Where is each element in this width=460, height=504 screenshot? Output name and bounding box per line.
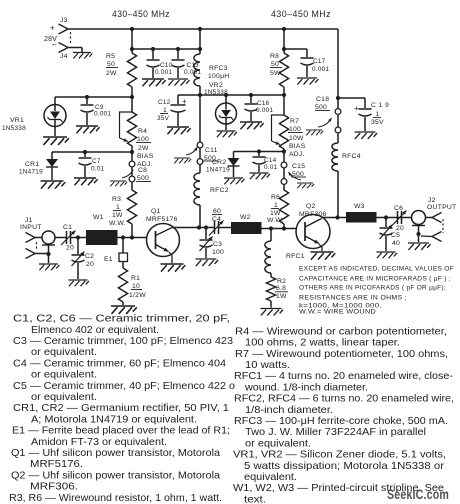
svg-text:20: 20 (86, 261, 94, 268)
svg-text:Q2 — Uhf silicon power transis: Q2 — Uhf silicon power transistor, Motor… (11, 470, 220, 481)
svg-text:0.001: 0.001 (155, 69, 172, 76)
svg-text:RFC2, RFC4 — 6 turns no. 20 en: RFC2, RFC4 — 6 turns no. 20 enameled wir… (234, 394, 454, 405)
svg-text:20: 20 (66, 245, 74, 252)
svg-text:Q1 — Uhf silicon power transis: Q1 — Uhf silicon power transistor, Motor… (11, 448, 220, 459)
svg-text:MRF5176: MRF5176 (146, 216, 178, 223)
svg-text:text.: text. (244, 494, 266, 504)
svg-text:C16: C16 (257, 100, 270, 107)
svg-text:+: + (50, 24, 55, 33)
svg-text:VR2: VR2 (209, 82, 223, 89)
svg-text:C 1 9: C 1 9 (371, 102, 389, 109)
svg-text:CR2: CR2 (212, 159, 226, 166)
svg-text:Elmenco 402 or equivalent.: Elmenco 402 or equivalent. (31, 325, 159, 336)
svg-text:1W: 1W (112, 212, 123, 219)
svg-text:2W: 2W (106, 70, 117, 77)
svg-text:C18: C18 (316, 96, 329, 103)
svg-text:0.001: 0.001 (94, 111, 111, 118)
svg-text:RFC3: RFC3 (209, 65, 228, 72)
svg-text:VR1, VR2 — Silicon Zener diode: VR1, VR2 — Silicon Zener diode, 5.1 volt… (233, 450, 446, 461)
svg-text:1N5338: 1N5338 (2, 125, 26, 132)
svg-text:–: – (52, 40, 57, 49)
svg-text:VR1: VR1 (10, 117, 24, 124)
svg-text:MRF306: MRF306 (299, 211, 327, 218)
svg-text:C4 — Ceramic trimmer, 60 pF; E: C4 — Ceramic trimmer, 60 pF; Elmenco 404 (13, 358, 226, 369)
svg-text:INPUT: INPUT (20, 224, 42, 231)
svg-text:50: 50 (271, 61, 279, 68)
svg-text:J4: J4 (60, 53, 68, 60)
svg-text:C17: C17 (313, 58, 326, 65)
svg-text:OUTPUT: OUTPUT (427, 204, 456, 211)
svg-text:C13: C13 (187, 62, 200, 69)
svg-text:or equivalent.: or equivalent. (31, 370, 97, 381)
svg-text:100: 100 (137, 136, 149, 143)
svg-text:R3: R3 (112, 196, 121, 203)
svg-text:C7: C7 (92, 158, 101, 165)
svg-text:R1: R1 (131, 275, 140, 282)
svg-text:C6: C6 (394, 205, 403, 212)
svg-text:60: 60 (213, 208, 221, 215)
svg-text:+: + (354, 104, 359, 113)
svg-text:50: 50 (107, 61, 115, 68)
svg-text:MRF5176.: MRF5176. (30, 459, 83, 470)
svg-text:R8: R8 (270, 53, 279, 60)
svg-text:40: 40 (392, 240, 400, 247)
svg-text:C3: C3 (213, 241, 222, 248)
svg-text:EXCEPT AS INDICATED, DECIMAL V: EXCEPT AS INDICATED, DECIMAL VALUES OF (299, 266, 454, 273)
svg-text:MRF306.: MRF306. (30, 482, 78, 493)
svg-text:E1 — Ferrite bead placed over: E1 — Ferrite bead placed over the lead o… (12, 426, 230, 437)
svg-text:1W: 1W (270, 210, 281, 217)
svg-text:C2: C2 (85, 253, 94, 260)
svg-text:W3: W3 (354, 203, 365, 210)
svg-text:R4: R4 (138, 128, 147, 135)
svg-text:Q1: Q1 (151, 208, 161, 215)
svg-text:W1: W1 (93, 214, 104, 221)
svg-text:100μH: 100μH (208, 73, 229, 80)
svg-text:R7 — Wirewound potentiometer,: R7 — Wirewound potentiometer, 100 ohms, (235, 349, 448, 360)
svg-text:C12: C12 (158, 99, 171, 106)
svg-text:RFC4: RFC4 (342, 153, 361, 160)
svg-text:C15: C15 (292, 163, 305, 170)
svg-text:2W: 2W (138, 145, 149, 152)
svg-text:J3: J3 (60, 17, 68, 24)
svg-text:100: 100 (289, 126, 301, 133)
svg-text:C10: C10 (160, 62, 173, 69)
svg-text:RFC1: RFC1 (286, 253, 305, 260)
svg-text:C8: C8 (138, 167, 147, 174)
svg-text:C14: C14 (264, 157, 277, 164)
svg-text:E1: E1 (104, 256, 113, 263)
svg-text:RESISTANCES ARE IN OHMS ;: RESISTANCES ARE IN OHMS ; (299, 295, 407, 302)
svg-text:or equivalent.: or equivalent. (31, 392, 97, 403)
svg-text:or equivalent.: or equivalent. (31, 347, 97, 358)
svg-text:W.W.: W.W. (109, 220, 126, 227)
svg-text:0.001: 0.001 (184, 69, 201, 76)
svg-text:RFC1 — 4 turns no. 20 enameled: RFC1 — 4 turns no. 20 enameled wire, clo… (234, 371, 453, 382)
svg-text:10W: 10W (289, 135, 304, 142)
svg-text:1N4719: 1N4719 (19, 169, 43, 176)
svg-text:W.W.: W.W. (267, 217, 284, 224)
svg-text:100 ohms, 2 watts, linear tape: 100 ohms, 2 watts, linear taper. (245, 338, 400, 349)
svg-text:R2: R2 (277, 278, 286, 285)
svg-text:ADJ.: ADJ. (289, 151, 305, 158)
svg-text:35V: 35V (371, 119, 384, 126)
svg-text:1/2W: 1/2W (129, 292, 146, 299)
svg-text:C11: C11 (205, 147, 218, 154)
svg-text:A; Motorola 1N4719 or equivale: A; Motorola 1N4719 or equivalent. (31, 414, 197, 425)
svg-text:W2: W2 (240, 214, 251, 221)
svg-text:100: 100 (212, 249, 224, 256)
svg-text:C1, C2, C6 — Ceramic trimmer,: C1, C2, C6 — Ceramic trimmer, 20 pF, (13, 314, 230, 325)
svg-text:1: 1 (376, 111, 380, 118)
svg-text:R4 — Wirewound or carbon poten: R4 — Wirewound or carbon potentiometer, (235, 326, 447, 337)
svg-text:wound. 1/8-inch diameter.: wound. 1/8-inch diameter. (244, 382, 368, 393)
svg-text:0.01: 0.01 (91, 166, 105, 173)
svg-text:Amidon FT-73 or equivalent.: Amidon FT-73 or equivalent. (31, 437, 167, 448)
svg-text:430–450 MHz: 430–450 MHz (112, 9, 170, 19)
svg-text:430–450 MHz: 430–450 MHz (271, 9, 331, 19)
svg-text:0.01: 0.01 (264, 164, 278, 171)
svg-text:C3 — Ceramic trimmer, 100 pF;: C3 — Ceramic trimmer, 100 pF; Elmenco 42… (13, 336, 233, 347)
svg-text:W.W.= WIRE WOUND: W.W.= WIRE WOUND (299, 309, 376, 316)
svg-text:1N4719: 1N4719 (206, 167, 230, 174)
svg-text:1N5338: 1N5338 (204, 89, 228, 96)
svg-text:RFC3 — 100-μH ferrite-core cho: RFC3 — 100-μH ferrite-core choke, 500 mA… (234, 416, 448, 427)
svg-text:1: 1 (163, 107, 167, 114)
svg-text:500: 500 (292, 171, 304, 178)
svg-text:1/8-inch diameter.: 1/8-inch diameter. (245, 405, 333, 416)
svg-text:Q2: Q2 (306, 203, 316, 210)
svg-text:CR1, CR2 — Germanium rectifier: CR1, CR2 — Germanium rectifier, 50 PIV, … (13, 403, 229, 414)
svg-text:0.001: 0.001 (256, 107, 273, 114)
svg-text:R7: R7 (290, 118, 299, 125)
svg-text:500: 500 (315, 104, 327, 111)
svg-text:1W: 1W (276, 293, 287, 300)
svg-text:500: 500 (137, 175, 149, 182)
svg-text:5W: 5W (270, 70, 281, 77)
svg-text:C5: C5 (391, 232, 400, 239)
svg-text:or equivalent.: or equivalent. (245, 438, 311, 449)
svg-text:OTHERS ARE IN PICOFARADS ( pF: OTHERS ARE IN PICOFARADS ( pF OR μμF); (299, 285, 446, 292)
svg-text:10 watts.: 10 watts. (245, 360, 290, 371)
svg-text:R5: R5 (106, 53, 115, 60)
svg-text:CAPACITANCE ARE IN MICROFARADS: CAPACITANCE ARE IN MICROFARADS ( μF ) ; (299, 276, 451, 283)
svg-text:Two J. W. Miller 73F224AF in p: Two J. W. Miller 73F224AF in parallel (245, 427, 426, 438)
svg-text:1: 1 (274, 202, 278, 209)
svg-text:20: 20 (396, 225, 404, 232)
svg-text:BIAS: BIAS (289, 143, 306, 150)
svg-text:1: 1 (116, 204, 120, 211)
svg-text:+: + (182, 97, 187, 106)
svg-text:R6: R6 (271, 194, 280, 201)
svg-text:SeekIC.com: SeekIC.com (387, 487, 449, 502)
svg-text:6.8: 6.8 (276, 285, 286, 292)
svg-text:C1: C1 (63, 224, 72, 231)
svg-text:C5 — Ceramic trimmer, 40 pF; E: C5 — Ceramic trimmer, 40 pF; Elmenco 422… (13, 381, 235, 392)
svg-text:J2: J2 (428, 197, 436, 204)
svg-text:CR1: CR1 (25, 161, 39, 168)
svg-text:0.001: 0.001 (312, 66, 329, 73)
svg-text:10: 10 (132, 283, 140, 290)
svg-text:equivalent.: equivalent. (244, 472, 297, 483)
svg-text:J1: J1 (25, 217, 33, 224)
svg-text:RFC2: RFC2 (210, 187, 229, 194)
svg-text:BIAS: BIAS (137, 153, 154, 160)
svg-text:35V: 35V (157, 115, 170, 122)
svg-text:5 watts dissipation; Motorola: 5 watts dissipation; Motorola 1N5338 or (244, 461, 445, 472)
svg-text:C4: C4 (212, 216, 221, 223)
svg-text:R3, R6 — Wirewound resistor, 1: R3, R6 — Wirewound resistor, 1 ohm, 1 wa… (9, 493, 222, 504)
